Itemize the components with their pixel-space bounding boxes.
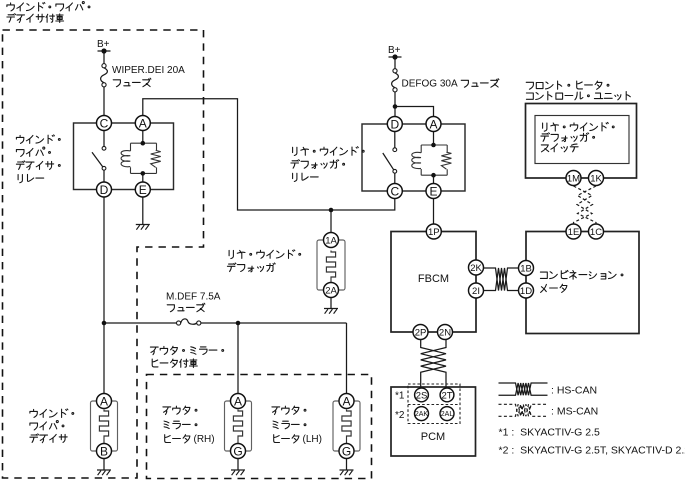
svg-text:G: G [342,444,351,458]
svg-text:1P: 1P [428,227,440,238]
svg-text:*1: *1 [395,391,405,402]
svg-text:2AK: 2AK [415,411,429,418]
svg-text:: HS-CAN: : HS-CAN [551,385,597,397]
svg-text:1B: 1B [520,263,532,274]
svg-text:1C: 1C [590,227,602,238]
svg-text:PCM: PCM [421,431,445,443]
svg-text:1E: 1E [568,227,580,238]
svg-text:E: E [139,183,147,197]
svg-text:1A: 1A [325,235,337,246]
svg-text:1D: 1D [520,286,532,297]
svg-text:2N: 2N [439,327,451,338]
svg-text:FBCM: FBCM [418,273,449,285]
svg-text:B: B [100,444,108,458]
svg-text:2AL: 2AL [441,411,454,418]
svg-text:C: C [390,184,399,198]
svg-text:D: D [100,183,109,197]
svg-text:A: A [100,394,108,408]
svg-text:1M: 1M [567,173,580,184]
svg-text:A: A [234,394,242,408]
svg-text:E: E [429,184,437,198]
svg-text:B+: B+ [388,45,401,56]
svg-text:M.DEF 7.5A: M.DEF 7.5A [166,292,221,303]
svg-text:B+: B+ [97,39,110,50]
svg-text:: MS-CAN: : MS-CAN [551,406,598,418]
svg-text:2K: 2K [470,263,482,274]
svg-text:2T: 2T [441,390,452,401]
svg-text:*1 : SKYACTIV-G 2.5: *1 : SKYACTIV-G 2.5 [499,426,601,438]
svg-text:A: A [429,117,437,131]
svg-text:2S: 2S [416,390,428,401]
svg-text:A: A [342,394,350,408]
svg-text:*2: *2 [395,410,405,421]
svg-text:*2 : SKYACTIV-G 2.5T, SKYACTI: *2 : SKYACTIV-G 2.5T, SKYACTIV-D 2.2 [499,445,685,457]
svg-text:(RH): (RH) [194,434,215,445]
svg-text:1K: 1K [590,173,602,184]
svg-text:A: A [139,116,147,130]
svg-text:2A: 2A [325,285,337,296]
svg-text:D: D [390,117,399,131]
svg-text:G: G [233,444,242,458]
svg-text:2I: 2I [472,286,480,297]
svg-text:C: C [100,116,109,130]
svg-text:2P: 2P [415,327,427,338]
svg-text:DEFOG 30A: DEFOG 30A [402,79,458,90]
svg-text:WIPER.DEI 20A: WIPER.DEI 20A [112,65,185,76]
svg-text:(LH): (LH) [303,434,322,445]
